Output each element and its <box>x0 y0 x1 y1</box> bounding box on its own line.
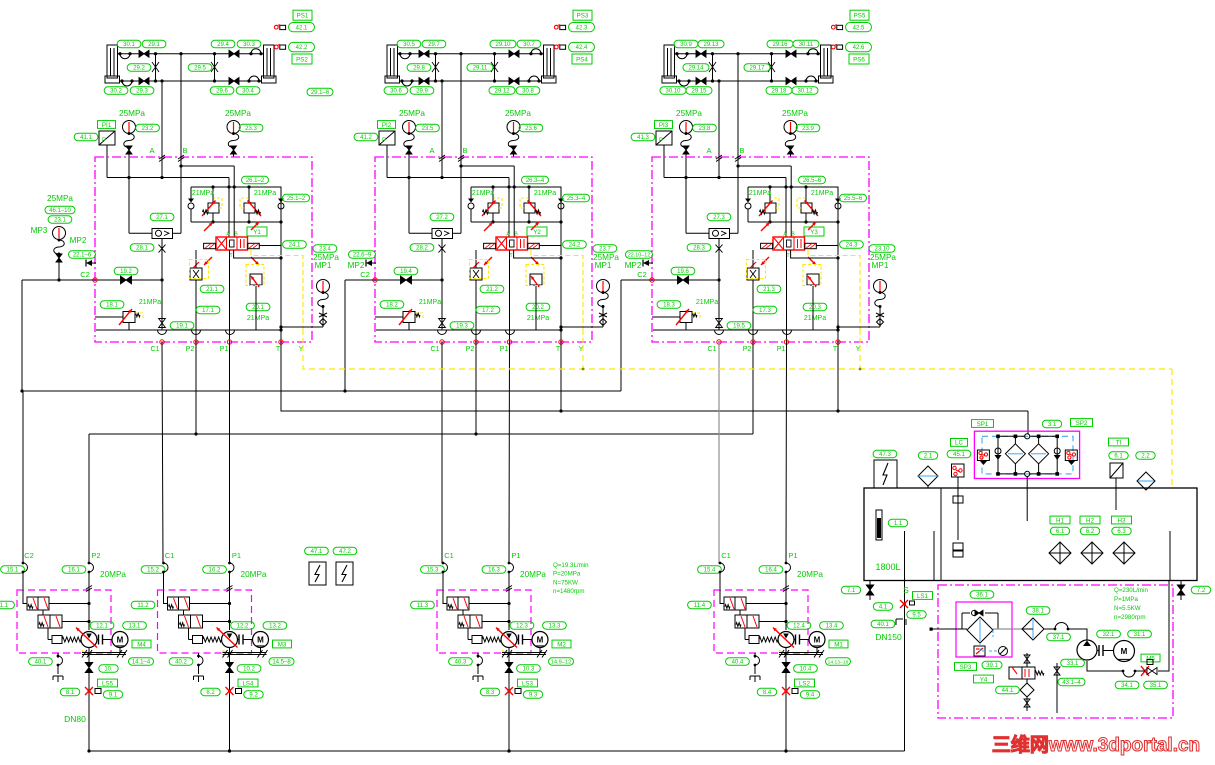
svg-text:P: P <box>382 138 386 144</box>
tank return pipe <box>1169 531 1171 581</box>
svg-text:S: S <box>903 585 909 595</box>
svg-text:M: M <box>1121 647 1128 656</box>
svg-text:23.7: 23.7 <box>599 247 611 253</box>
svg-text:P: P <box>102 138 106 144</box>
check valve 29.7 <box>419 50 424 57</box>
pump actuator <box>472 636 482 644</box>
svg-text:DN150: DN150 <box>875 632 902 642</box>
valve 33.1 43.1-4 <box>1061 659 1085 666</box>
wire C2 module2 <box>345 279 375 281</box>
svg-text:M4: M4 <box>137 641 146 648</box>
label 47.2 <box>333 547 357 554</box>
wire P1 column <box>509 250 511 342</box>
shutoff 19.5 <box>727 322 751 329</box>
svg-text:7.1: 7.1 <box>847 588 856 594</box>
svg-text:MP2: MP2 <box>625 261 642 270</box>
svg-text:23.9: 23.9 <box>802 126 814 132</box>
svg-text:12.2: 12.2 <box>237 624 249 630</box>
coupling <box>98 635 100 645</box>
svg-text:21MPa: 21MPa <box>749 190 771 197</box>
check valve 29.16 <box>786 50 791 57</box>
valve 35.1 <box>1141 666 1149 676</box>
svg-text:9.2: 9.2 <box>249 693 258 699</box>
filter drop to tank <box>1026 477 1028 522</box>
svg-text:SP3: SP3 <box>960 664 972 671</box>
gauge MP1 23.10 <box>869 245 895 252</box>
svg-text:29.18: 29.18 <box>771 89 787 95</box>
wire net C2 horizontal <box>22 390 621 392</box>
wire gauge to check <box>128 178 130 234</box>
svg-text:29.6: 29.6 <box>216 89 228 95</box>
pump actuator <box>193 636 203 644</box>
svg-text:C1: C1 <box>444 551 454 560</box>
port P1 <box>227 340 231 344</box>
svg-text:19.5: 19.5 <box>733 324 745 330</box>
svg-text:30.10: 30.10 <box>665 89 681 95</box>
drain valve 7.2 <box>1191 586 1210 593</box>
wire C2 internal <box>375 279 442 281</box>
svg-text:11.4: 11.4 <box>694 603 706 609</box>
wire net T horizontal <box>281 342 1028 411</box>
svg-text:37.1: 37.1 <box>1053 635 1065 641</box>
wire T link <box>234 250 281 258</box>
svg-text:14.9–12: 14.9–12 <box>551 660 572 666</box>
cylinder top rail <box>675 53 821 55</box>
svg-text:36.1: 36.1 <box>976 593 988 599</box>
svg-text:23.2: 23.2 <box>142 126 154 132</box>
svg-text:M: M <box>117 636 124 645</box>
cylinder left module 2 <box>387 45 398 78</box>
svg-text:23.4: 23.4 <box>319 247 331 253</box>
wire B riser <box>736 52 739 55</box>
variable pump group 4 <box>778 632 794 648</box>
svg-text:29.13: 29.13 <box>703 42 719 48</box>
svg-text:PI3: PI3 <box>659 122 669 129</box>
heater symbols <box>1049 542 1071 564</box>
wire C2 internal <box>652 279 719 281</box>
valve 20.1 <box>250 274 262 285</box>
svg-text:PS4: PS4 <box>576 56 588 63</box>
surge box 47.1 <box>309 562 326 585</box>
svg-text:42.4: 42.4 <box>576 45 588 51</box>
svg-text:13.3: 13.3 <box>549 624 561 630</box>
check valve MP2 22.6–9 <box>349 251 376 258</box>
svg-text:PS6: PS6 <box>853 56 865 63</box>
port P2 <box>751 340 755 344</box>
label LS5 <box>98 679 118 687</box>
svg-text:15.4: 15.4 <box>704 568 716 574</box>
svg-text:33.1: 33.1 <box>1067 661 1079 667</box>
port T <box>279 340 283 344</box>
svg-text:21.2: 21.2 <box>486 287 498 293</box>
svg-text:28.2: 28.2 <box>416 246 428 252</box>
svg-text:A: A <box>429 146 434 155</box>
case drain 14.1–4 <box>82 652 126 654</box>
svg-text:29.1: 29.1 <box>148 42 160 48</box>
cylinder right module 1 <box>264 45 275 78</box>
check valve 29.10 <box>509 50 514 57</box>
throttle 29.2 <box>155 54 157 81</box>
svg-text:27.3: 27.3 <box>713 215 725 221</box>
relief valve 18.1 <box>100 301 124 308</box>
cylinder bottom rail <box>120 80 262 82</box>
svg-text:T: T <box>276 346 281 353</box>
breather 2.1 <box>918 452 937 459</box>
svg-text:PS1: PS1 <box>297 13 309 20</box>
port C1 <box>440 340 444 344</box>
svg-text:29.14: 29.14 <box>688 66 704 72</box>
svg-text:17.1: 17.1 <box>202 308 214 314</box>
svg-text:18.3: 18.3 <box>663 303 675 309</box>
svg-text:21MPa: 21MPa <box>811 190 833 197</box>
cooler diamond <box>967 617 993 643</box>
svg-text:17.2: 17.2 <box>482 308 494 314</box>
wire T column <box>280 187 282 343</box>
svg-text:29.3: 29.3 <box>136 89 148 95</box>
svg-text:20MPa: 20MPa <box>100 570 126 579</box>
port C1 <box>160 340 164 344</box>
svg-text:PS2: PS2 <box>296 56 308 63</box>
surge box 47.2 <box>336 562 353 585</box>
svg-text:24.3: 24.3 <box>846 243 858 249</box>
svg-text:22.1–6: 22.1–6 <box>73 253 92 259</box>
clog indicator left <box>977 450 989 461</box>
pilot ball right <box>278 203 284 209</box>
svg-text:20.3: 20.3 <box>809 305 821 311</box>
port C1 <box>717 340 721 344</box>
svg-text:41.1: 41.1 <box>80 135 92 141</box>
check valve 29.13 <box>696 50 701 57</box>
crossing ticks <box>439 155 445 159</box>
svg-text:2.2: 2.2 <box>1141 454 1150 460</box>
port C2 <box>373 278 377 282</box>
svg-text:30.2: 30.2 <box>110 89 122 95</box>
svg-text:27.1: 27.1 <box>156 215 168 221</box>
pilot line yellow 2 <box>302 330 304 345</box>
svg-text:16.2: 16.2 <box>209 568 221 574</box>
svg-text:29.16: 29.16 <box>772 42 788 48</box>
label LS3 <box>518 679 538 687</box>
svg-text:23.1: 23.1 <box>54 218 66 224</box>
wire B net <box>180 54 182 234</box>
svg-text:P1: P1 <box>500 346 509 353</box>
throttle check 28.1 <box>130 244 154 251</box>
ball valve 19.2 <box>114 267 138 274</box>
label 11.1 <box>0 601 14 608</box>
bypass check <box>975 610 979 616</box>
port T <box>559 340 563 344</box>
port P2 <box>474 340 478 344</box>
pump unit boundary group 4 <box>714 590 808 653</box>
svg-text:15.2: 15.2 <box>147 568 159 574</box>
pilot check valve 27.1 <box>150 213 174 220</box>
svg-text:8.2: 8.2 <box>206 690 215 696</box>
svg-text:C2: C2 <box>24 551 34 560</box>
svg-text:41.3: 41.3 <box>637 135 649 141</box>
label 26.5–6 <box>799 176 826 183</box>
svg-text:MP1: MP1 <box>595 261 612 270</box>
svg-text:6.1: 6.1 <box>1056 529 1065 535</box>
pump unit boundary group 1 <box>17 590 111 653</box>
throttle 29.5 <box>214 54 216 81</box>
svg-text:21.1: 21.1 <box>206 287 218 293</box>
control valve 2 <box>458 615 482 628</box>
reducing valve 21.3 <box>747 268 759 280</box>
svg-text:25MPa: 25MPa <box>399 109 425 118</box>
svg-text:LC: LC <box>955 440 963 447</box>
svg-text:P1: P1 <box>511 551 520 560</box>
svg-text:23.5: 23.5 <box>422 126 434 132</box>
port P1 <box>784 340 788 344</box>
svg-text:P2: P2 <box>186 346 195 353</box>
svg-text:23.6: 23.6 <box>525 126 537 132</box>
svg-text:17.3: 17.3 <box>759 308 771 314</box>
variable pump group 3 <box>501 632 517 648</box>
svg-text:2.1: 2.1 <box>924 454 933 460</box>
svg-text:16.3: 16.3 <box>488 568 500 574</box>
wire A net <box>387 177 509 179</box>
svg-text:28.1: 28.1 <box>136 246 148 252</box>
svg-text:30.8: 30.8 <box>522 89 534 95</box>
svg-text:三维网www.3dportal.cn: 三维网www.3dportal.cn <box>992 733 1200 756</box>
filter PI3 <box>655 121 673 129</box>
svg-text:30.1: 30.1 <box>123 42 135 48</box>
svg-text:DN80: DN80 <box>64 714 86 724</box>
check valve outlet 10.4 <box>785 648 787 752</box>
gauge MP1 23.7 <box>593 245 617 252</box>
wire pump to manifold <box>228 749 231 752</box>
manifold block boundary module 3 <box>652 157 869 342</box>
svg-text:9.4: 9.4 <box>806 693 815 699</box>
svg-text:C1: C1 <box>151 346 160 353</box>
cylinder left module 3 <box>664 45 675 78</box>
svg-text:20MPa: 20MPa <box>520 570 546 579</box>
svg-text:Y4: Y4 <box>980 676 988 683</box>
check right <box>1056 436 1058 474</box>
pilot ball right <box>558 203 564 209</box>
wire A riser <box>717 79 720 82</box>
svg-text:13.2: 13.2 <box>269 624 281 630</box>
svg-text:10.: 10. <box>104 667 113 673</box>
wire T link <box>791 250 838 258</box>
svg-text:19.2: 19.2 <box>120 269 132 275</box>
pump unit boundary group 2 <box>158 590 252 653</box>
pressure switch PS2 <box>274 45 278 49</box>
svg-text:27.2: 27.2 <box>436 215 448 221</box>
svg-text:C2: C2 <box>360 270 370 279</box>
check valve 29.18 <box>786 78 791 85</box>
svg-text:21MPa: 21MPa <box>527 315 549 322</box>
svg-text:20.2: 20.2 <box>532 305 544 311</box>
svg-text:LS1: LS1 <box>917 593 929 600</box>
svg-text:8.3: 8.3 <box>486 690 495 696</box>
drain valve 7.1 <box>841 586 860 593</box>
svg-text:Y1: Y1 <box>253 229 261 236</box>
svg-text:M: M <box>537 636 544 645</box>
svg-text:A: A <box>706 146 711 155</box>
heater H2 <box>1080 516 1100 524</box>
control valve 1 <box>720 590 724 604</box>
svg-text:29.11: 29.11 <box>473 66 488 72</box>
crossing ticks <box>716 155 722 159</box>
pilot ball left <box>468 203 474 209</box>
svg-text:22.10–12: 22.10–12 <box>628 253 651 259</box>
throttle 29.11 <box>494 54 496 81</box>
svg-text:30.4: 30.4 <box>242 89 254 95</box>
svg-text:22.6–9: 22.6–9 <box>353 253 372 259</box>
svg-text:C1: C1 <box>165 551 175 560</box>
control valve 1 <box>23 590 27 604</box>
svg-text:21.3: 21.3 <box>763 287 775 293</box>
pilot ball left <box>188 203 194 209</box>
svg-text:P2: P2 <box>466 346 475 353</box>
wire T to filter <box>1027 411 1029 434</box>
svg-text:19.4: 19.4 <box>400 269 412 275</box>
suction manifold <box>89 750 905 752</box>
label 26.3–4 <box>522 176 549 183</box>
control valve 2 <box>179 615 203 628</box>
tank 1800L <box>864 488 1197 581</box>
svg-text:H2: H2 <box>1086 517 1094 524</box>
butterfly valve 8.3 <box>505 687 513 695</box>
wire net P2 horizontal <box>89 433 753 435</box>
svg-text:25MPa: 25MPa <box>676 109 702 118</box>
label 17.1 <box>196 306 220 313</box>
svg-text:12.1: 12.1 <box>96 624 108 630</box>
wire pump to manifold <box>784 749 787 752</box>
svg-text:32.1: 32.1 <box>1103 632 1115 638</box>
svg-text:38.1: 38.1 <box>1032 609 1044 615</box>
throttle check 28.3 <box>687 244 711 251</box>
svg-text:47.1: 47.1 <box>311 549 323 555</box>
label 47.1 <box>305 547 329 554</box>
svg-text:42.6: 42.6 <box>853 45 865 51</box>
check valve outlet 10. <box>88 648 90 752</box>
filter diamond left <box>1005 444 1025 464</box>
svg-text:25MPa: 25MPa <box>225 109 251 118</box>
svg-text:21MPa: 21MPa <box>472 190 494 197</box>
svg-text:25.3–4: 25.3–4 <box>567 196 586 202</box>
svg-text:21MPa: 21MPa <box>534 190 556 197</box>
svg-text:40.3: 40.3 <box>455 660 467 666</box>
svg-text:Y2: Y2 <box>533 229 541 236</box>
svg-text:3.1: 3.1 <box>1048 422 1057 428</box>
svg-text:B: B <box>462 146 467 155</box>
pilot net Y yellow <box>303 345 1172 369</box>
svg-text:29.8: 29.8 <box>413 66 425 72</box>
cylinder bottom rail <box>400 80 542 82</box>
reducing valve 21.1 <box>190 268 202 280</box>
labels cylinder row <box>397 40 421 47</box>
heater H1 <box>1050 516 1070 524</box>
wire pump to manifold <box>87 749 90 752</box>
port C2 <box>650 278 654 282</box>
throttle 29.17 <box>771 54 773 81</box>
coupling <box>238 635 240 645</box>
throttle 29.8 <box>435 54 437 81</box>
solenoid valve Y4 <box>982 661 1002 668</box>
svg-text:29.10: 29.10 <box>495 42 511 48</box>
wire hx supply <box>1022 628 1033 630</box>
svg-text:PI2: PI2 <box>382 122 392 129</box>
svg-text:21MPa: 21MPa <box>696 299 718 306</box>
relief manifold <box>471 186 561 188</box>
svg-text:LS3: LS3 <box>522 680 534 687</box>
svg-text:29.5: 29.5 <box>194 66 206 72</box>
check valve 29.3 <box>139 78 144 85</box>
wire B net <box>737 54 739 234</box>
filter diamond right <box>1029 444 1049 464</box>
check left <box>997 436 999 474</box>
svg-text:30.3: 30.3 <box>243 42 255 48</box>
valve 20.2 <box>530 274 542 285</box>
svg-text:29.4: 29.4 <box>217 42 229 48</box>
svg-text:13.1: 13.1 <box>129 624 141 630</box>
control valve 2 <box>735 615 759 628</box>
svg-text:12.3: 12.3 <box>516 624 528 630</box>
svg-text:23.10: 23.10 <box>874 247 890 253</box>
svg-text:Q=230L/min: Q=230L/min <box>1114 587 1148 594</box>
pilot check valve 27.3 <box>707 213 731 220</box>
svg-text:P1: P1 <box>220 346 229 353</box>
throttle 29.14 <box>712 54 714 81</box>
svg-text:M: M <box>814 636 821 645</box>
check valve outlet 10.2 <box>229 648 231 752</box>
wire cooler line <box>931 628 967 630</box>
svg-text:M3: M3 <box>278 641 287 648</box>
svg-text:M1: M1 <box>834 641 843 648</box>
tank divider <box>940 488 942 581</box>
svg-text:41.2: 41.2 <box>360 135 372 141</box>
svg-text:7.2: 7.2 <box>1197 588 1206 594</box>
svg-text:25MPa: 25MPa <box>782 109 808 118</box>
drain 40.1 <box>29 658 53 665</box>
shutoff 19.1 <box>170 322 194 329</box>
svg-text:30.12: 30.12 <box>797 89 813 95</box>
pressure switch PS5 <box>831 25 835 29</box>
pilot line yellow <box>531 250 583 330</box>
svg-text:24.2: 24.2 <box>569 243 581 249</box>
svg-text:29.12: 29.12 <box>494 89 510 95</box>
svg-text:11.1: 11.1 <box>0 603 9 609</box>
svg-text:39.1: 39.1 <box>986 663 998 669</box>
svg-text:25MPa: 25MPa <box>505 109 531 118</box>
svg-text:MP3: MP3 <box>31 226 48 235</box>
svg-text:P=1MPa: P=1MPa <box>1114 596 1138 603</box>
svg-text:40.1: 40.1 <box>877 622 889 628</box>
cylinder top rail <box>118 53 264 55</box>
svg-text:47.3: 47.3 <box>879 452 891 458</box>
svg-text:31.1: 31.1 <box>1134 632 1146 638</box>
wire C2 module1 <box>22 279 95 281</box>
svg-text:42.5: 42.5 <box>853 25 865 31</box>
svg-text:21MPa: 21MPa <box>139 299 161 306</box>
svg-text:C1: C1 <box>708 346 717 353</box>
svg-text:Q=19.3L/min: Q=19.3L/min <box>553 562 589 569</box>
label 24.3 <box>840 241 864 248</box>
svg-text:14.5–8: 14.5–8 <box>272 660 291 666</box>
wire P2 to pump1 <box>88 434 90 563</box>
svg-text:C2: C2 <box>80 270 90 279</box>
drain 40.3 <box>449 658 473 665</box>
svg-text:19.6: 19.6 <box>677 269 689 275</box>
svg-text:46.1–10: 46.1–10 <box>49 208 71 214</box>
clog indicator right <box>1065 450 1077 461</box>
pilot check valve 27.2 <box>430 213 454 220</box>
label 24.2 <box>563 241 587 248</box>
svg-text:4.1: 4.1 <box>879 605 888 611</box>
svg-text:8.1: 8.1 <box>66 690 75 696</box>
